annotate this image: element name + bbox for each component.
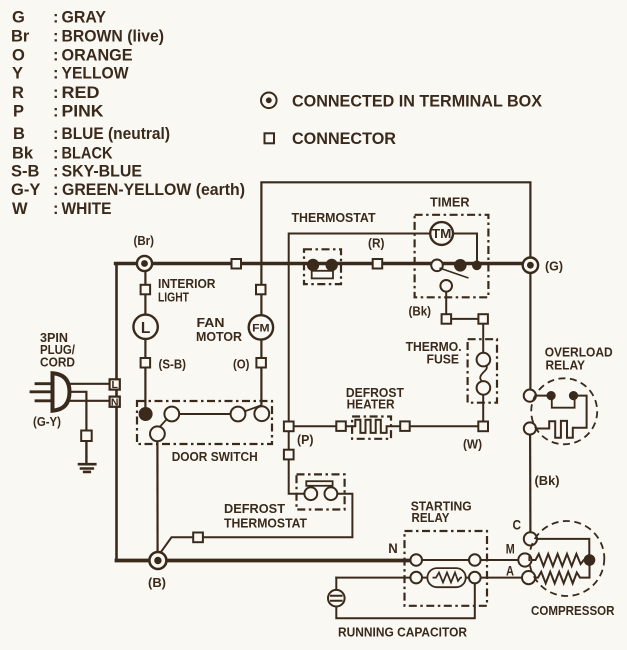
wire: plug earth lead G-Y	[66, 392, 86, 431]
wire: earth connector to ground	[85, 441, 87, 464]
door switch contact d (to FM)	[254, 406, 269, 421]
defrost thermostat contact right	[325, 487, 338, 500]
svg-text:P: P	[13, 103, 24, 121]
svg-text::: :	[53, 125, 59, 143]
svg-text::: :	[53, 103, 59, 121]
wire: C terminal over and down to winding common	[537, 539, 589, 556]
overload contact bracket	[552, 400, 575, 407]
connector square timer branch left	[442, 314, 452, 324]
connector square on top bus	[232, 259, 242, 269]
svg-text::: :	[53, 84, 59, 102]
svg-text:BLUE (neutral): BLUE (neutral)	[62, 125, 171, 143]
svg-text:HEATER: HEATER	[347, 396, 396, 411]
legend symbol: connector square	[265, 133, 275, 143]
starting relay terminal top-left N	[410, 554, 422, 566]
thermostat dashed box	[304, 249, 341, 284]
text layer	[11, 9, 542, 218]
svg-text:BLACK: BLACK	[62, 144, 113, 162]
svg-text:CORD: CORD	[40, 355, 75, 370]
svg-text:PINK: PINK	[62, 103, 104, 121]
thermostat contact dot right	[326, 259, 338, 271]
door switch dashed box	[137, 401, 272, 444]
connector square heater left	[336, 421, 346, 431]
svg-text:RUNNING CAPACITOR: RUNNING CAPACITOR	[338, 625, 468, 640]
wire: relay bottom row	[422, 577, 471, 579]
svg-text:COMPRESSOR: COMPRESSOR	[531, 603, 615, 618]
svg-text:(B): (B)	[148, 576, 166, 590]
wire: A row relay to compressor	[481, 577, 523, 579]
door switch contact a	[164, 407, 179, 422]
overload contact dot left	[547, 391, 556, 400]
defrost thermostat top bar	[306, 481, 332, 486]
thermo fuse lower circle	[477, 381, 491, 395]
connector square below interior light (S-B)	[141, 358, 151, 368]
wire: TM right terminal down to timer contact	[453, 234, 477, 264]
connector square heater right	[400, 421, 410, 431]
filled dots layer	[139, 259, 596, 566]
compressor winding common dot	[584, 554, 596, 566]
svg-text:WHITE: WHITE	[62, 200, 112, 218]
svg-text:G: G	[12, 9, 25, 27]
timer switch open contact	[431, 260, 443, 272]
svg-text:B: B	[13, 125, 25, 143]
svg-text:S-B: S-B	[11, 163, 40, 181]
wire: capacitor bottom loop to relay A terminal	[336, 583, 475, 619]
wire: A row extension to running capacitor	[336, 577, 411, 579]
defrost heater element zigzag	[352, 420, 479, 433]
defrost thermostat dashed box	[297, 474, 345, 509]
svg-text:Bk: Bk	[12, 144, 34, 162]
thermo fuse dashed box	[468, 339, 497, 403]
compressor dashed circle	[529, 521, 604, 596]
svg-text:CONNECTED IN TERMINAL BOX: CONNECTED IN TERMINAL BOX	[292, 92, 542, 110]
thermo fuse S link	[480, 366, 487, 381]
compressor terminal A	[522, 571, 535, 584]
svg-text:Br: Br	[11, 28, 30, 46]
wire: top main bus (Br to G)	[116, 262, 531, 265]
svg-text:(O): (O)	[233, 358, 250, 372]
svg-text:THERMOSTAT: THERMOSTAT	[292, 210, 376, 225]
svg-text:O: O	[12, 46, 25, 64]
svg-text:BROWN (live): BROWN (live)	[62, 28, 165, 46]
wire: relay top row between circles	[422, 559, 470, 561]
wire: defrost thermostat return to B node	[160, 494, 353, 554]
svg-text:DEFROST: DEFROST	[224, 501, 285, 516]
svg-text:TM: TM	[432, 227, 452, 241]
connector square below P	[284, 450, 294, 460]
connector square defrost thermostat return	[193, 533, 203, 543]
wire: plug neutral to N terminal	[66, 400, 110, 402]
starting relay coil zigzag	[433, 573, 463, 583]
svg-text:ORANGE: ORANGE	[62, 46, 133, 64]
door switch blade 2	[239, 406, 261, 414]
svg-text:(R): (R)	[368, 237, 385, 251]
node G dot	[527, 262, 534, 269]
overload relay heater square wave path	[536, 396, 587, 438]
svg-text:CONNECTOR: CONNECTOR	[292, 130, 396, 148]
svg-text:RELAY: RELAY	[412, 510, 450, 525]
svg-text::: :	[53, 65, 59, 83]
connector square interior light top	[141, 285, 151, 295]
svg-text:Y: Y	[12, 65, 23, 83]
wire: M row relay to compressor	[481, 559, 520, 561]
svg-text:L: L	[111, 379, 118, 391]
legend symbol: terminal box circle	[261, 93, 277, 109]
svg-text:A: A	[506, 563, 514, 579]
connector square node W	[478, 422, 488, 432]
svg-text::: :	[53, 28, 59, 46]
overload relay dashed circle	[531, 378, 597, 444]
svg-text:TIMER: TIMER	[430, 195, 470, 210]
compressor aux winding zigzag	[535, 565, 590, 584]
connector square earth wire	[81, 431, 92, 442]
svg-text:M: M	[506, 541, 515, 557]
L terminal square	[110, 379, 120, 389]
ground symbol	[79, 464, 95, 472]
svg-text::: :	[53, 144, 59, 162]
svg-text:DOOR SWITCH: DOOR SWITCH	[172, 449, 258, 464]
starting relay coil capsule	[427, 568, 465, 587]
svg-text:RED: RED	[62, 84, 100, 102]
wire: thermo fuse to (W) connector	[482, 393, 484, 424]
wire: interior light branch	[144, 264, 146, 415]
wire: fan motor branch	[260, 264, 262, 415]
node B: terminal-box circle	[149, 552, 166, 569]
svg-text::: :	[53, 9, 59, 27]
svg-text:GREEN-YELLOW (earth): GREEN-YELLOW (earth)	[62, 181, 245, 199]
wire: timer motor feed from node P up and over to TM	[289, 234, 431, 427]
wire: defrost heater line from P to W	[289, 425, 352, 427]
symbol letters	[111, 227, 451, 408]
wire: overload relay to compressor C	[529, 435, 532, 533]
svg-text:(S-B): (S-B)	[159, 358, 187, 372]
timer dashed box	[415, 215, 489, 297]
svg-text:THERMOSTAT: THERMOSTAT	[224, 515, 307, 530]
thermostat bracket under contacts	[312, 271, 333, 279]
thermo fuse upper circle	[477, 353, 491, 367]
wire: top rectangle wire from fan branch up over to (G)	[261, 182, 530, 265]
door switch contact b	[231, 407, 246, 422]
wire: P down to defrost thermostat	[289, 428, 305, 494]
defrost heater dashed box	[352, 417, 391, 439]
compressor terminal M	[518, 553, 531, 566]
svg-text:YELLOW: YELLOW	[62, 65, 129, 83]
svg-text::: :	[53, 200, 59, 218]
wire: bottom main bus (B to starting relay N)	[117, 559, 412, 563]
svg-text:(Br): (Br)	[134, 234, 155, 248]
svg-text:(W): (W)	[463, 438, 482, 452]
svg-text:FAN: FAN	[197, 315, 225, 330]
door switch dot (light)	[139, 407, 153, 421]
wire: capacitor top lead	[335, 578, 337, 591]
compressor main winding zigzag	[531, 554, 585, 566]
svg-text:GRAY: GRAY	[62, 9, 107, 27]
svg-text:G-Y: G-Y	[11, 181, 40, 199]
starting relay terminal bottom-right	[469, 572, 481, 584]
connector square node P	[284, 422, 294, 432]
wire: timer lower contact down to connectors	[445, 289, 447, 316]
defrost thermostat contact left	[304, 487, 317, 500]
svg-text:C: C	[513, 517, 522, 533]
svg-text:RELAY: RELAY	[546, 358, 586, 373]
wire: right vertical (G) to overload relay	[529, 265, 531, 390]
svg-text:(Bk): (Bk)	[409, 305, 432, 319]
svg-text:(Bk): (Bk)	[535, 474, 560, 488]
node Br: terminal-box circle	[137, 256, 152, 271]
svg-text:N: N	[111, 396, 119, 408]
node Br dot	[141, 260, 148, 267]
overload contact dot right	[569, 391, 578, 400]
starting relay terminal bottom-left	[410, 572, 422, 584]
svg-text:SKY-BLUE: SKY-BLUE	[62, 163, 143, 181]
timer contact dot small	[472, 261, 482, 271]
timer motor TM	[430, 222, 453, 245]
svg-text::: :	[53, 46, 59, 64]
svg-text:N: N	[388, 540, 398, 556]
svg-text:L: L	[141, 320, 150, 337]
svg-text:(G): (G)	[545, 260, 563, 274]
wire: down to thermo fuse	[482, 321, 484, 354]
connector square fan motor top	[256, 285, 266, 295]
overload relay bottom terminal	[524, 422, 536, 434]
wire: left vertical from top bus to bottom bus	[115, 264, 118, 561]
wire: door switch middle link	[178, 413, 232, 415]
svg-text:W: W	[12, 200, 28, 218]
svg-text::: :	[53, 163, 59, 181]
starting relay terminal top-right	[469, 554, 481, 566]
connector square timer branch right	[478, 314, 488, 324]
svg-text:(P): (P)	[297, 433, 314, 447]
running capacitor body	[328, 590, 345, 607]
svg-text:(G-Y): (G-Y)	[33, 415, 61, 429]
compressor terminal C	[524, 532, 537, 545]
svg-text:MOTOR: MOTOR	[196, 329, 243, 344]
wire: door switch lower contact down to B node	[156, 434, 158, 561]
node G: terminal-box circle	[523, 258, 538, 273]
thermostat contact dot left	[307, 259, 319, 271]
3-pin plug body	[53, 373, 70, 410]
white filled symbols layer	[81, 222, 538, 606]
connector square (R) on top bus	[373, 259, 383, 269]
timer lower contact	[440, 280, 452, 292]
interior light lamp L	[133, 315, 157, 339]
overload relay top terminal	[524, 390, 536, 402]
door switch blade 1	[157, 415, 172, 431]
node B dot	[154, 557, 161, 564]
N terminal square	[110, 397, 120, 407]
svg-text:LIGHT: LIGHT	[158, 290, 189, 305]
svg-text:R: R	[12, 84, 24, 102]
door switch contact c (to B)	[150, 426, 165, 441]
connector square below fan motor (O)	[256, 358, 266, 368]
timer switch blade	[440, 268, 469, 278]
svg-text:FM: FM	[252, 323, 270, 335]
timer contact dot large	[454, 259, 467, 272]
svg-text:FUSE: FUSE	[427, 352, 460, 367]
3-pin plug prongs	[31, 384, 53, 401]
wire: overload relay internal top contacts	[536, 395, 551, 397]
fan motor FM	[249, 315, 273, 339]
dashed component boxes	[137, 215, 604, 606]
wire: plug live to L terminal	[66, 383, 110, 385]
svg-text::: :	[53, 181, 59, 199]
running capacitor plates	[330, 596, 343, 601]
starting relay dashed box	[405, 531, 488, 606]
wire: between timer branch connectors	[447, 318, 484, 320]
